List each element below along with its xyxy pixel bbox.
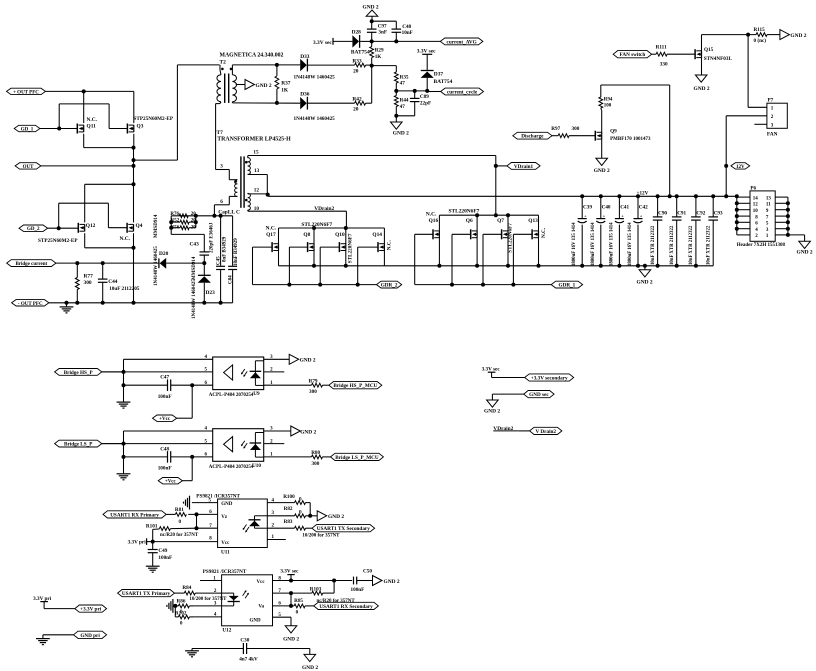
resistor R102 [175,615,194,619]
svg-text:C40: C40 [602,205,611,211]
pin label 12 [254,188,260,194]
svg-text:STL220N6F7: STL220N6F7 [449,208,480,214]
svg-text:+Vcc: +Vcc [159,417,171,422]
svg-text:R100: R100 [283,494,295,500]
net flag GND pri [74,631,107,639]
svg-text:Q9: Q9 [610,129,617,135]
svg-text:10nF XTR 2112322: 10nF XTR 2112322 [651,225,656,265]
svg-text:8nF B34929: 8nF B34929 [222,236,227,262]
phase dot T2 primary [221,68,224,71]
label P7 [768,97,774,103]
label R42 20 [352,97,362,113]
wire to U9 pin4 [124,359,213,372]
junction bus Q14 [356,283,360,287]
svg-text:1K: 1K [281,88,289,94]
junction R115 node [746,33,750,37]
junction C41 bottom [617,264,621,268]
svg-text:0: 0 [180,620,183,626]
label GND U12 [250,619,262,624]
label C44 10uF [108,279,140,292]
junction D37 bottom [425,89,429,93]
net flag Bridge HS_P [55,369,102,376]
net flag +3.3V secondary [525,374,574,382]
power flag +Vcc U10 [158,478,182,485]
pin label U10-1 [270,453,273,458]
wire to U10 pin5 [102,443,213,445]
pin U12-4 [194,613,222,618]
label C48 10nF [402,24,413,36]
transistor Q9 [595,131,601,141]
svg-text:R85: R85 [294,598,303,604]
power flag 3.3V sec tie [482,367,525,378]
junction R37 bottom [275,101,279,105]
wire R-stack right bar [195,216,197,228]
label R102 0 [175,611,187,627]
wire to R111 [652,53,657,55]
svg-text:330: 330 [660,62,668,68]
svg-text:1800uF 16V 135 1414: 1800uF 16V 135 1414 [628,222,633,266]
wire Q15 source [701,58,703,75]
wire to U10 pin4 [124,431,213,444]
label C49 100nF [158,548,172,561]
svg-text:C41: C41 [620,205,629,211]
junction 12V rail R94 [668,194,672,198]
label 10/200 U12 [189,597,227,602]
wire Q13 gate [513,234,532,284]
capacitor C42 electrolytic [634,196,643,265]
svg-text:VDrain2: VDrain2 [314,206,334,212]
junction 12V flag [724,164,728,168]
wire VDrain1 stub [496,165,507,167]
junction sources Q12 Q4 [132,246,136,250]
junction D23 bottom [202,301,206,305]
wire current_AVG [372,40,441,42]
capacitor C84 [228,216,237,303]
label Q15 [704,47,714,53]
svg-text:R79: R79 [309,378,318,384]
ground C49 [146,566,160,572]
svg-text:Discharge: Discharge [521,134,544,140]
wire -OUT PFC rail [49,302,233,304]
label R94 100 [604,97,613,108]
ground U11 pin5 [184,496,190,510]
net flag GDR_2 [377,281,402,288]
svg-text:R94: R94 [604,97,613,102]
svg-text:N.C.: N.C. [541,227,547,238]
label R80 300 [311,450,320,467]
label GND U11 [221,502,233,507]
ground flag GND2 top [363,5,379,22]
svg-text:C48: C48 [160,446,169,452]
label C92 [696,211,705,217]
svg-text:300: 300 [312,461,320,467]
junction P6 right [786,201,790,205]
junction Bridge LS_P [122,442,126,446]
net flag GD_1 [14,125,40,132]
svg-text:20: 20 [353,68,359,74]
wire R33 to junction [366,64,372,66]
svg-text:13: 13 [254,168,260,174]
label C89 22pF [420,94,431,106]
junction C39 bottom [580,264,584,268]
net flag FAN switch [613,51,651,59]
label VDrain2 alias [493,426,529,432]
junction right bar top [194,214,198,218]
junction C45 top [219,214,223,218]
net flag V Drain2 [530,427,562,435]
junction C90 top [656,194,660,198]
wire Q3 source / OUT vertical [133,134,135,223]
net flag VDrain1 [507,163,540,170]
junction C40 bottom [599,264,603,268]
svg-text:GND 2: GND 2 [300,429,316,435]
pin label U9-6 [205,381,208,386]
label R100 0 [283,494,302,503]
wire Q10 gate [320,247,339,285]
svg-text:C43: C43 [190,241,200,247]
svg-text:GND 2: GND 2 [384,579,400,585]
optocoupler U9 box [213,357,264,390]
svg-text:+: + [584,213,587,218]
svg-text:1800uF 16V 135 1414: 1800uF 16V 135 1414 [572,222,577,266]
transistor Q17 [272,228,278,266]
wire P7-2 to 12V [725,116,727,197]
label D28 [352,30,362,36]
label 10/200 U11 [302,534,340,539]
label C41 value [609,222,614,266]
svg-text:GND 2: GND 2 [283,637,299,643]
wire node down [174,606,176,617]
label C91 [677,211,686,217]
junction P6 right [786,220,790,224]
junction gnd tap bottom rail [643,264,647,268]
transformer T2 primary winding [217,65,221,104]
svg-text:GND: GND [221,502,233,507]
wire Q8 gate [289,247,307,285]
ground GND2 U11 [317,511,344,521]
pin U11-3 [267,511,294,516]
junction Vcc U10 [190,455,194,459]
svg-text:10: 10 [753,209,759,214]
junction C42 bottom [636,264,640,268]
junction R44 bottom gnd [394,114,398,118]
label PS9821 U12 [203,569,247,575]
wire to U9 pin5 [102,371,213,373]
transistor Q6 [471,215,477,266]
svg-text:GND 2: GND 2 [797,249,813,255]
svg-text:10nF XTR 2112322: 10nF XTR 2112322 [706,225,711,265]
resistor R76 [179,214,188,218]
svg-text:R29: R29 [375,47,384,53]
svg-text:+: + [640,213,643,218]
wire pin5 down [290,617,292,626]
label Vz U11 [221,515,228,520]
resistor R77 [75,263,79,303]
transistor Q4 [127,223,133,233]
ground GND2 U12 [283,626,299,643]
svg-text:11: 11 [766,203,771,208]
junction Vcc U9 [190,383,194,387]
junction P6 right [786,208,790,212]
svg-text:Q6: Q6 [466,218,473,224]
svg-text:Vz: Vz [221,515,228,520]
pin U11-2 [267,523,294,528]
svg-text:FAN switch: FAN switch [620,52,646,58]
diode D33 [300,59,354,72]
transformer T7 sec upper [248,156,251,175]
svg-text:current_cycle: current_cycle [447,90,478,96]
resistor R80 [312,455,323,459]
svg-text:GND: GND [250,619,262,624]
resistor R85 [294,604,314,608]
pin U12-7 [273,589,312,594]
wire Q9 drain to R94 [601,111,603,133]
power flag 3.3V pri U11 [128,538,153,545]
svg-text:+: + [621,213,624,218]
svg-text:Bridge current: Bridge current [15,262,47,267]
led U11 [249,516,268,528]
label GND2 T2 [256,83,272,89]
resistor R37 [275,65,279,103]
phase dot T7 sec lower [245,199,248,202]
junction Q4 source rail [132,301,136,305]
svg-text:N.C.: N.C. [426,212,437,218]
resistor R35 [394,72,398,91]
svg-text:USART1 TX Primary: USART1 TX Primary [122,591,171,597]
svg-text:MMSD914: MMSD914 [192,256,197,280]
label Q10 [335,232,345,238]
junction C45 bottom [219,301,223,305]
label Q7 [497,218,504,224]
svg-text:Q14: Q14 [372,232,382,238]
junction sources Q11 Q3 [132,146,136,150]
wire T2 center tap [236,84,245,86]
capacitor C90 [653,196,663,265]
resistor R101 [153,527,197,542]
svg-text:1800uF 16V 135 1414: 1800uF 16V 135 1414 [609,222,614,266]
diode D23 [198,263,211,303]
wire T2 primary bottom [216,104,220,170]
label STL220N6F7 Q10 vert [348,233,354,263]
svg-text:N.C.: N.C. [87,117,98,123]
junction bus Q10 [318,283,322,287]
svg-text:Q13: Q13 [528,218,538,224]
svg-text:300: 300 [84,280,92,286]
junction C44 top [101,261,105,265]
pin label 13 [254,168,260,174]
power flag 3.3V pri tie [33,596,75,608]
pin label U10-5 [205,439,208,444]
junction P6 left [735,214,739,218]
svg-text:D28: D28 [352,30,362,36]
junction VDrain1 / rail [494,213,498,217]
resistor R111 [656,52,667,56]
label R81 0 [175,507,184,525]
junction C93 top [711,194,715,198]
transistor Q11 [77,124,83,134]
svg-text:USART1 TX Secondary: USART1 TX Secondary [317,526,370,532]
ground GND2 cap bank [637,266,653,286]
ground GND2 U9 [289,354,316,364]
junction VDrain1 [494,164,498,168]
label Vcc U11 [221,541,230,546]
transistor Q7 [502,215,508,266]
label ACPL U9 [209,391,260,398]
label R56 20 [171,226,197,231]
resistor R29 [370,41,374,65]
wire P7-1 to R115 node [747,35,749,108]
junction source rail [537,264,541,268]
wire GD_2 to Q12 gate [48,227,79,229]
svg-text:100nF: 100nF [158,555,172,561]
svg-text:GND 2: GND 2 [790,33,806,39]
junction P6 left [735,220,739,224]
svg-text:USART1 RX Primary: USART1 RX Primary [110,512,159,518]
wire C48 to pin6 [192,456,213,458]
ground GND2 R115 [780,30,807,40]
pin U11-5 [192,498,218,503]
junction pins 12-13 [266,193,270,197]
label Q8 [303,232,310,238]
svg-text:100nF: 100nF [158,466,172,472]
capacitor C41 electrolytic [615,196,624,265]
junction GD_2 node [57,226,61,230]
wire T7 pin3 [216,170,238,180]
junction C42 top [636,194,640,198]
ground GND2 C30 [302,654,318,670]
wire pin15 VDrain1 [248,156,496,216]
label D23 MMSD914 [192,256,197,280]
transistor Q13 [532,215,538,266]
junction GD_1 node [57,127,61,131]
junction C92 bottom [694,264,698,268]
label Q14 [372,232,382,238]
svg-text:Q10: Q10 [335,232,345,238]
svg-text:P6: P6 [750,186,756,192]
wire row2 drain rail [279,227,385,229]
wire OUT flag [41,165,134,167]
label C30 value [239,657,258,663]
label R83 [284,519,293,525]
junction 3.3V pri node [151,540,155,544]
transformer T7 sec lower [248,193,251,211]
net flag GDR_1 [551,281,582,288]
label nc/R20 U12 [317,599,356,604]
label R44 47 [400,98,409,111]
label ACPL U10 [209,463,262,470]
svg-text:N.C.: N.C. [386,240,392,251]
svg-text:R84: R84 [182,585,191,591]
wire pin7-pin6 tie [290,593,292,606]
label Q9 [610,129,617,135]
svg-text:R97: R97 [551,126,560,132]
pin U12-8 [273,576,353,581]
label D20 [159,251,169,257]
net flag +3.3V pri [75,605,107,613]
svg-text:C92: C92 [696,211,705,217]
junction source rail [312,264,316,268]
svg-text:C89: C89 [420,94,429,100]
diode D37 [421,71,434,91]
svg-text:R82: R82 [284,506,293,512]
svg-text:Header 7X2H 1551308: Header 7X2H 1551308 [737,243,786,248]
junction R33/R29/R42 [370,64,374,68]
wire T2 sec top [232,64,300,66]
wire R94 to 12V rail [601,85,670,196]
svg-text:22pF: 22pF [420,100,431,106]
phase dot T7 sec upper [245,161,248,164]
label R77 300 [84,274,94,287]
svg-text:100: 100 [604,103,612,108]
optocoupler U12 box [222,575,273,626]
label Va U12 [258,604,264,609]
wire GDR_2 bus [253,284,377,286]
pin label U10-6 [205,453,208,458]
connector P6 [750,191,775,241]
svg-text:GND 2: GND 2 [484,408,500,414]
label N.C. Q16 [426,212,439,224]
diode D28 [352,35,371,48]
wire pin12 step [266,194,268,196]
label R37 1K [281,81,291,94]
pin P7-3 [754,124,773,129]
svg-text:C47: C47 [160,375,169,381]
label R103 [310,586,322,592]
junction R81 node [195,512,199,516]
net flag USART1 RX Primary [103,511,166,519]
svg-text:P7: P7 [768,97,774,103]
wire 12V rail [268,195,737,197]
pin U12-1 [200,576,222,581]
transistor Q12 [78,223,84,233]
svg-text:R86: R86 [177,599,186,605]
svg-text:C39: C39 [583,205,592,211]
svg-text:R35: R35 [400,74,409,80]
wire Q12 source [85,233,134,248]
svg-text:N.C.: N.C. [266,226,277,232]
wire C47 to pin6 [192,384,213,386]
label C40 [602,205,611,211]
svg-text:Bridge LS_P_MCU: Bridge LS_P_MCU [335,455,379,461]
pin numbers P6 [753,196,772,239]
wire Q9 source [601,139,603,158]
net flag current_cycle [441,88,484,95]
wire Bridge LS_P [102,443,124,445]
resistor R84 [184,591,198,595]
junction C90 bottom [656,264,660,268]
svg-text:C84: C84 [228,275,233,284]
svg-text:1K: 1K [375,54,382,60]
svg-text:GND 2: GND 2 [300,358,316,364]
junction Q10 drain [344,226,348,230]
resistor R94 [599,85,603,111]
net flag 12V [731,163,750,170]
svg-text:R44: R44 [400,98,409,104]
junction Q7 drain [506,213,510,217]
resistor R44 [394,91,398,116]
pin label 6 [220,199,223,205]
net flag GND sec [524,391,554,399]
wire R111 to Q15 gate [667,53,695,55]
junction pin7 node [195,526,199,530]
junction P6 right [786,227,790,231]
power flag 3.3V sec D28 [313,38,352,46]
wire row1 drain rail [439,214,538,216]
label STN4NF03L [704,56,733,62]
capacitor C91 [672,196,682,265]
svg-text:13: 13 [766,196,772,201]
svg-text:STP25N60M2-EP: STP25N60M2-EP [38,238,78,244]
